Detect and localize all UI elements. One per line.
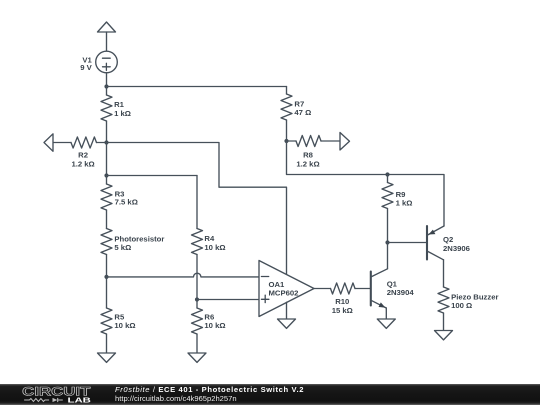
node junction xyxy=(195,297,199,301)
svg-text:R5: R5 xyxy=(114,312,125,321)
ground xyxy=(278,319,296,328)
wire with hop xyxy=(107,273,260,277)
resistor R5 10 k&#937; xyxy=(101,277,136,353)
svg-text:7.5 kΩ: 7.5 kΩ xyxy=(115,198,138,207)
node junction xyxy=(284,139,288,143)
svg-text:100 Ω: 100 Ω xyxy=(451,301,472,310)
transistor Q1 2N3904 xyxy=(371,243,415,320)
photoresistor 5 k&#937; xyxy=(101,229,164,277)
op-amp OA1 MCP602 xyxy=(259,261,314,317)
resistor R3 7.5 k&#937; xyxy=(101,176,138,229)
svg-text:1.2 kΩ: 1.2 kΩ xyxy=(71,159,94,168)
svg-text:5 kΩ: 5 kΩ xyxy=(114,243,131,252)
transistor Q2 2N3906 xyxy=(427,226,470,260)
node B junction xyxy=(104,173,108,177)
svg-text:2N3904: 2N3904 xyxy=(387,288,415,297)
resistor R4 10 k&#937; xyxy=(192,229,226,300)
resistor R6 10 k&#937; xyxy=(192,300,226,354)
svg-text:47 Ω: 47 Ω xyxy=(294,108,311,117)
CircuitLab logo xyxy=(0,384,110,405)
svg-text:1 kΩ: 1 kΩ xyxy=(396,198,413,207)
footer title text xyxy=(0,384,540,405)
svg-text:LAB: LAB xyxy=(68,396,92,405)
svg-text:10 kΩ: 10 kΩ xyxy=(204,321,225,330)
svg-text:9 V: 9 V xyxy=(80,63,92,72)
svg-text:R10: R10 xyxy=(335,297,349,306)
node junction xyxy=(104,84,108,88)
resistor R1 1 k&#937; xyxy=(101,87,131,143)
wire xyxy=(107,86,287,88)
ground xyxy=(435,331,453,340)
svg-text:R2: R2 xyxy=(78,151,88,160)
svg-text:MCP602: MCP602 xyxy=(269,288,299,297)
node junction xyxy=(385,172,389,176)
wire xyxy=(106,32,108,52)
footer bar xyxy=(0,384,540,405)
svg-text:15 kΩ: 15 kΩ xyxy=(332,306,353,315)
resistor R2 1.2 k&#937; xyxy=(53,137,107,168)
wire xyxy=(107,175,198,177)
resistor R10 15 k&#937; xyxy=(331,283,371,315)
wire xyxy=(196,176,198,229)
wire xyxy=(197,299,259,301)
wire xyxy=(388,242,428,244)
svg-text:R6: R6 xyxy=(204,312,214,321)
node junction xyxy=(385,240,389,244)
wire xyxy=(106,73,108,87)
svg-text:1.2 kΩ: 1.2 kΩ xyxy=(296,159,319,168)
ground xyxy=(188,353,206,362)
svg-text:1 kΩ: 1 kΩ xyxy=(114,109,131,118)
piezo buzzer 100 &#937; xyxy=(438,260,499,331)
node A junction xyxy=(104,140,108,144)
svg-text:2N3906: 2N3906 xyxy=(443,244,470,253)
resistor R9 1 k&#937; xyxy=(382,175,412,243)
node junction xyxy=(104,275,108,279)
resistor R7 47 &#937; xyxy=(281,87,311,142)
svg-text:R4: R4 xyxy=(204,234,215,243)
wire xyxy=(286,302,288,319)
net flag left xyxy=(44,134,53,152)
net flag right xyxy=(340,133,350,151)
wire xyxy=(314,288,331,290)
svg-text:10 kΩ: 10 kΩ xyxy=(114,321,135,330)
svg-text:R8: R8 xyxy=(303,151,314,160)
wire xyxy=(287,141,445,226)
svg-text:10 kΩ: 10 kΩ xyxy=(204,243,225,252)
wire xyxy=(106,143,108,176)
svg-text:R1: R1 xyxy=(114,100,125,109)
wire xyxy=(107,143,287,275)
resistor R8 1.2 k&#937; xyxy=(287,136,341,169)
ground xyxy=(98,353,116,362)
power flag VCC xyxy=(98,22,116,32)
ground xyxy=(377,319,395,328)
svg-text:Q2: Q2 xyxy=(443,235,453,244)
voltage source V1 9 V xyxy=(80,51,117,73)
